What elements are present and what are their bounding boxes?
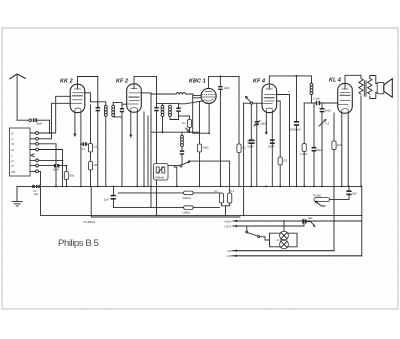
svg-text:(50kΩ): (50kΩ) bbox=[183, 196, 191, 200]
svg-text:(1MΩ): (1MΩ) bbox=[183, 211, 191, 215]
svg-text:2×15W: 2×15W bbox=[277, 238, 286, 242]
svg-text:KF 2: KF 2 bbox=[116, 79, 128, 85]
coil T1 primary bbox=[91, 102, 106, 107]
coil T2 secondary bbox=[169, 105, 172, 108]
capacitor 5000pF grid KL4 bbox=[321, 103, 323, 108]
osc tap arrow bbox=[188, 130, 190, 132]
KBC1 diode wire diagonal bbox=[179, 101, 204, 104]
coil T2 primary bbox=[161, 105, 164, 108]
resistor 1M AVC bbox=[184, 206, 194, 210]
output transformer secondary bbox=[368, 79, 372, 95]
dropper switch arrow bbox=[317, 203, 325, 207]
T1 to KF2 grid bbox=[122, 102, 126, 104]
svg-text:A: A bbox=[11, 137, 14, 141]
cathode link cap bbox=[81, 143, 91, 145]
heater row C bbox=[233, 250, 334, 252]
svg-text:0,5: 0,5 bbox=[283, 159, 287, 163]
svg-text:KK 2: KK 2 bbox=[60, 79, 73, 85]
ground bbox=[16, 186, 18, 201]
KK2 pin wires bbox=[74, 113, 76, 134]
lamp loop bbox=[270, 233, 298, 247]
KF2 top cap wire bbox=[134, 77, 157, 89]
vertical screen feed bbox=[144, 112, 148, 186]
vertical 302 with resistor 1.2k bbox=[303, 103, 305, 144]
voltage selector switch bbox=[246, 226, 248, 231]
variable cap 50pF bbox=[256, 103, 258, 121]
svg-text:8µF: 8µF bbox=[308, 216, 313, 220]
volume pot arrow bbox=[319, 112, 326, 126]
svg-text:1MΩ: 1MΩ bbox=[203, 146, 209, 150]
T1 bottom link bbox=[113, 117, 122, 186]
IF transformer T2 capacitor left bbox=[156, 77, 158, 107]
capacitor T2 right bbox=[176, 108, 180, 110]
divider resistor B bbox=[228, 193, 232, 203]
resistor on screen feed bbox=[278, 157, 282, 165]
svg-text:50k: 50k bbox=[70, 174, 75, 178]
KF2 grid wire bbox=[126, 103, 128, 105]
svg-text:0,1: 0,1 bbox=[182, 121, 186, 125]
svg-text:0,1: 0,1 bbox=[242, 146, 246, 150]
tube KBC1 bbox=[201, 88, 216, 103]
resistor 0.1M on 239 bbox=[237, 144, 241, 153]
resistor 0.1M osc bbox=[189, 116, 191, 120]
KF2 pin wires bbox=[130, 112, 132, 135]
capacitor 60nF row D bbox=[38, 165, 54, 167]
choke coil bbox=[311, 76, 313, 83]
svg-text:445kHz: 445kHz bbox=[155, 176, 165, 180]
svg-text:60nF: 60nF bbox=[53, 167, 59, 171]
svg-text:KL 4: KL 4 bbox=[329, 78, 341, 84]
long vertical anode feed bbox=[150, 93, 152, 208]
main chassis bus bbox=[17, 185, 362, 187]
terminal stubs bbox=[30, 133, 36, 171]
resistor 50k grid bbox=[66, 166, 68, 172]
svg-text:E: E bbox=[12, 131, 14, 135]
svg-text:50nF: 50nF bbox=[268, 145, 274, 149]
svg-text:1,2kΩ: 1,2kΩ bbox=[300, 152, 307, 156]
svg-text:≈127V: ≈127V bbox=[224, 224, 232, 228]
loop wire inner bbox=[91, 186, 240, 217]
resistor 50k AVC bbox=[184, 191, 194, 195]
output transformer primary bbox=[360, 75, 362, 78]
capacitor T1 right bbox=[120, 108, 124, 110]
KF4 top wire bbox=[269, 76, 311, 89]
divider resistor A bbox=[221, 192, 223, 194]
AVC line 2 bbox=[114, 207, 220, 209]
lamp 1 bbox=[280, 231, 289, 240]
wire row E to KK2 grid bbox=[38, 96, 70, 133]
capacitor 100pF bbox=[250, 104, 252, 139]
terminal circles bbox=[36, 132, 39, 135]
wire antenna to E row bbox=[49, 120, 51, 133]
mains cap 8uF bbox=[303, 219, 305, 226]
AF line to KL4 grid bbox=[304, 102, 316, 104]
padder box 445kHz bbox=[154, 164, 169, 181]
antenna bbox=[9, 74, 26, 79]
tube KF4 bbox=[262, 84, 277, 113]
right border vertical bbox=[232, 186, 362, 255]
svg-text:10pF: 10pF bbox=[224, 86, 230, 90]
KF4 anode wire bbox=[277, 95, 290, 187]
KL4 pins down bbox=[342, 113, 348, 187]
oscillator coil bbox=[181, 132, 183, 135]
svg-text:Philips B 5: Philips B 5 bbox=[58, 238, 98, 249]
svg-text:1µF: 1µF bbox=[104, 198, 109, 202]
svg-text:+50: +50 bbox=[11, 170, 16, 174]
KL4 grid connect bbox=[337, 102, 339, 104]
wire band switch down bbox=[243, 103, 245, 215]
vertical from KBC1 rail bbox=[238, 76, 240, 186]
svg-text:1µF: 1µF bbox=[34, 192, 39, 196]
svg-text:≈220V: ≈220V bbox=[224, 219, 232, 223]
AVC line 1 bbox=[119, 192, 220, 194]
switch contact KF4 grid bbox=[245, 96, 248, 99]
capacitor 10pF bbox=[219, 76, 221, 86]
mains row A bbox=[233, 220, 362, 222]
KK2 top cap wire bbox=[78, 77, 98, 90]
oscillator padding capacitor bbox=[180, 150, 184, 152]
wire row M down bbox=[38, 150, 62, 187]
svg-text:0,1: 0,1 bbox=[214, 189, 218, 193]
svg-text:KBC 1: KBC 1 bbox=[189, 79, 206, 85]
secondary to speaker wires bbox=[370, 76, 377, 99]
grid link line with coil hump bbox=[151, 93, 176, 95]
switch C2 on bus bbox=[32, 185, 34, 187]
svg-text:20000pF: 20000pF bbox=[290, 128, 301, 132]
bus junction dots bbox=[55, 186, 57, 188]
capacitor 0.1uF series bbox=[316, 101, 318, 105]
IF transformer T1 capacitor left bbox=[97, 77, 99, 108]
capacitor on KF4 cathode bbox=[270, 139, 275, 141]
resistor chain right of KK2 bbox=[90, 105, 92, 144]
svg-text:5µF: 5µF bbox=[352, 192, 357, 196]
lamp 2 bbox=[280, 240, 289, 249]
KF4 pins down bbox=[265, 112, 267, 132]
svg-text:0,1: 0,1 bbox=[231, 189, 235, 193]
KF4 screen wire bbox=[277, 101, 281, 157]
tube KL4 bbox=[338, 83, 353, 113]
wire row W down bbox=[38, 144, 56, 187]
svg-text:50pF: 50pF bbox=[36, 121, 42, 125]
wire row A to KK2 grid2 bbox=[38, 103, 70, 139]
KL4 top wire bbox=[345, 75, 361, 89]
oscillator line bbox=[151, 131, 199, 133]
arrow AVC bbox=[73, 134, 76, 137]
terminal strip bbox=[10, 128, 31, 176]
tube KF2 bbox=[127, 84, 142, 112]
svg-text:5000: 5000 bbox=[325, 109, 331, 113]
svg-text:D: D bbox=[12, 164, 14, 168]
dropper resistor 70-55 bbox=[314, 198, 330, 202]
svg-text:G: G bbox=[12, 159, 14, 163]
svg-text:=4V: =4V bbox=[227, 249, 232, 253]
wire antenna feed bbox=[17, 119, 29, 121]
decoupling cap 1uF bbox=[113, 186, 115, 194]
resistor 1k on 334 bbox=[333, 113, 335, 141]
trimmer arrow bbox=[181, 155, 183, 163]
svg-text:1,5: 1,5 bbox=[93, 145, 97, 149]
resistor 1M KBC1 bbox=[199, 102, 201, 145]
svg-text:1kΩ: 1kΩ bbox=[337, 143, 342, 147]
wire antenna down bbox=[16, 75, 18, 121]
grid return line bbox=[193, 132, 209, 134]
KK2 anode wire bbox=[85, 93, 91, 102]
svg-text:50nF: 50nF bbox=[248, 145, 254, 149]
divider bottom wire bbox=[222, 203, 230, 215]
svg-text:0,1µF: 0,1µF bbox=[313, 97, 320, 101]
capacitor 20000pF bbox=[296, 76, 298, 121]
tube KK2 bbox=[70, 84, 85, 112]
svg-text:70-55Ω: 70-55Ω bbox=[313, 193, 322, 197]
speaker bbox=[377, 83, 384, 94]
coil T1 secondary bbox=[112, 105, 115, 108]
wire +50 down corner loop bbox=[38, 171, 362, 215]
svg-text:0,3: 0,3 bbox=[325, 122, 329, 126]
svg-text:=4V: =4V bbox=[227, 254, 232, 258]
mains row B bbox=[233, 225, 304, 227]
capacitor 5uF bbox=[348, 186, 350, 190]
svg-text:0,1: 0,1 bbox=[82, 147, 86, 151]
heater row D bbox=[233, 255, 362, 257]
osc AVC line to divider bbox=[189, 161, 229, 193]
capacitor C1 antenna series bbox=[29, 119, 32, 122]
transformer core bbox=[364, 81, 366, 96]
capacitor 50uF bbox=[313, 103, 315, 147]
svg-text:KF 4: KF 4 bbox=[253, 79, 265, 85]
svg-text:27+38kHz: 27+38kHz bbox=[82, 220, 96, 224]
KBC1 top rail bbox=[209, 76, 239, 88]
KF2 anode wire bbox=[142, 92, 151, 94]
mid AF coupling line bbox=[288, 91, 290, 93]
wire row G bbox=[38, 159, 62, 161]
KBC1 cathode wire bbox=[208, 104, 210, 134]
